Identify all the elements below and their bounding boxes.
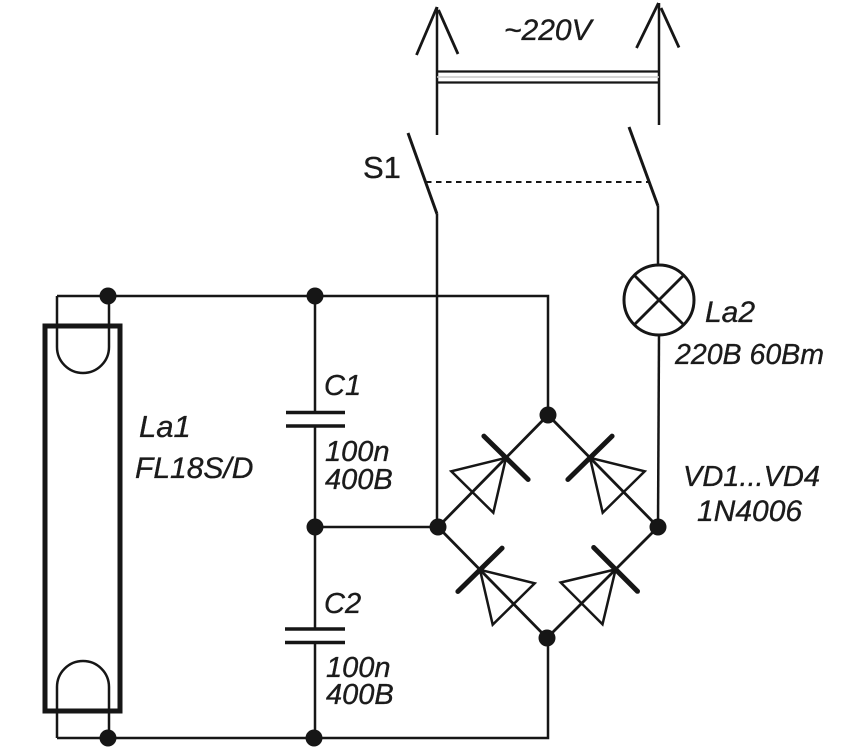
capacitor C1 bbox=[314, 296, 317, 412]
wire S1 pole1 to bridge left bbox=[436, 214, 439, 527]
diode VD3 bottom-left bbox=[458, 548, 535, 625]
node dot bridge bottom bbox=[539, 630, 556, 647]
svg-text:S1: S1 bbox=[363, 150, 401, 185]
plug arrow right bbox=[637, 3, 680, 48]
wire C mid to bridge left bbox=[315, 526, 438, 529]
svg-text:FL18S/D: FL18S/D bbox=[135, 452, 253, 485]
node dot bottom wire / C2 bbox=[306, 730, 323, 747]
svg-text:La2: La2 bbox=[705, 296, 755, 329]
svg-text:400B: 400B bbox=[326, 679, 394, 711]
svg-text:~220V: ~220V bbox=[504, 14, 595, 47]
switch S1 link dashed bbox=[426, 181, 648, 183]
mains terminal double bar bbox=[437, 70, 659, 72]
svg-text:La1: La1 bbox=[139, 409, 191, 444]
svg-text:400B: 400B bbox=[325, 464, 393, 496]
node dot bridge right bbox=[650, 519, 667, 536]
La1 top filament bbox=[57, 296, 109, 373]
wire S1 pole2 to lamp La2 bbox=[657, 206, 660, 265]
wire right mains vertical bbox=[658, 3, 661, 125]
node dot bridge top bbox=[540, 407, 557, 424]
lamp La2 bbox=[624, 265, 694, 335]
svg-text:220B 60Bm: 220B 60Bm bbox=[674, 339, 824, 371]
diode VD4 bottom-right bbox=[561, 548, 638, 625]
diode VD2 top-right bbox=[568, 436, 645, 513]
diode VD1 top-left bbox=[451, 436, 528, 513]
svg-text:VD1...VD4: VD1...VD4 bbox=[683, 461, 820, 493]
wire La2 to bridge right bbox=[658, 335, 659, 527]
node dot bottom wire / filament bbox=[100, 730, 117, 747]
plug arrow left bbox=[417, 7, 459, 55]
switch S1 pole 1 blade bbox=[408, 133, 437, 214]
capacitor C2 bbox=[314, 527, 317, 629]
node dot top wire / C1 bbox=[307, 288, 324, 305]
node dot C1/C2 midpoint bbox=[307, 519, 324, 536]
svg-text:1N4006: 1N4006 bbox=[697, 495, 802, 528]
wire top rail bbox=[57, 296, 548, 415]
fluorescent tube La1 bbox=[45, 326, 120, 711]
wire bottom rail bbox=[57, 638, 548, 738]
La1 bottom filament bbox=[57, 661, 109, 738]
svg-text:C1: C1 bbox=[324, 370, 361, 402]
svg-text:C2: C2 bbox=[324, 588, 361, 620]
bridge diamond bbox=[438, 415, 658, 638]
node dot top wire / filament bbox=[100, 288, 117, 305]
node dot bridge left bbox=[430, 519, 447, 536]
wire left mains vertical bbox=[436, 7, 439, 135]
switch S1 pole 2 blade bbox=[629, 127, 658, 206]
